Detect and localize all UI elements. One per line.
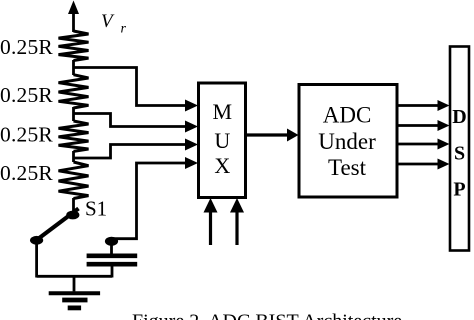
svg-text:0.25R: 0.25R — [0, 161, 53, 185]
svg-text:S: S — [454, 143, 465, 165]
svg-text:Under: Under — [318, 129, 376, 154]
svg-text:P: P — [453, 179, 465, 201]
svg-text:ADC: ADC — [323, 103, 372, 128]
svg-text:r: r — [121, 22, 127, 37]
svg-text:Figure 2. ADC BIST Architectur: Figure 2. ADC BIST Architecture — [132, 311, 402, 320]
svg-text:S1: S1 — [85, 197, 107, 221]
svg-text:0.25R: 0.25R — [0, 123, 53, 147]
svg-text:0.25R: 0.25R — [0, 35, 53, 59]
svg-text:Test: Test — [328, 155, 367, 180]
svg-text:D: D — [452, 106, 466, 128]
svg-text:M: M — [213, 99, 233, 124]
svg-text:0.25R: 0.25R — [0, 83, 53, 107]
svg-text:U: U — [214, 128, 230, 153]
svg-text:X: X — [214, 153, 230, 178]
